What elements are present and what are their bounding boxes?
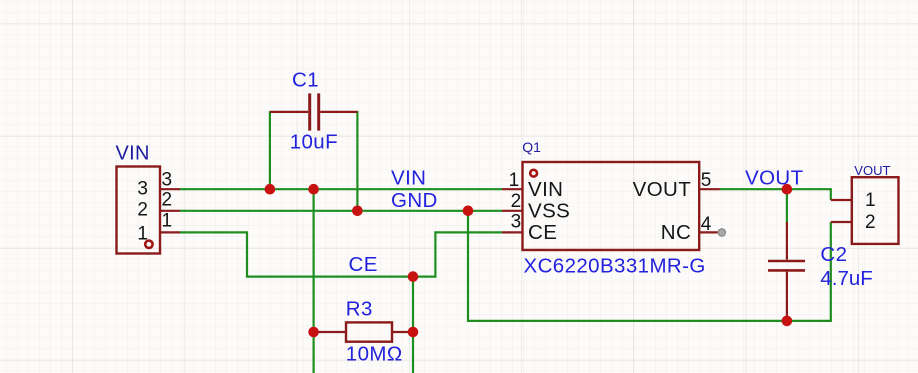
svg-text:CE: CE bbox=[528, 221, 557, 244]
svg-text:10uF: 10uF bbox=[290, 131, 338, 154]
junction dot R3 right bbox=[408, 327, 419, 338]
capacitor C2 bottom plate bbox=[768, 269, 805, 272]
svg-text:VIN: VIN bbox=[116, 142, 150, 164]
junction dot R3 left bbox=[308, 327, 319, 338]
IC Q1 pin 1 stub bbox=[502, 188, 523, 190]
junction dot bottom rail / C2 bottom bbox=[782, 316, 793, 327]
IC Q1 pin 4 stub bbox=[699, 231, 717, 233]
connector J1 pin 1 stub bbox=[160, 231, 180, 233]
svg-text:1: 1 bbox=[162, 211, 173, 232]
connector J1 pin 2 stub bbox=[160, 210, 180, 212]
connector J2 pin 2 stub bbox=[831, 221, 852, 223]
wire CE net: J1 pin1 to IC pin3 bbox=[180, 232, 502, 276]
wire C2 top bbox=[786, 189, 788, 223]
svg-text:3: 3 bbox=[162, 169, 173, 190]
capacitor C2 bottom lead bbox=[786, 272, 788, 321]
svg-text:VIN: VIN bbox=[528, 178, 563, 201]
capacitor C1 right plate bbox=[317, 93, 320, 130]
IC Q1 pin 3 stub bbox=[502, 231, 523, 233]
connector J1 pin1 indicator circle bbox=[145, 241, 152, 248]
svg-text:2: 2 bbox=[137, 199, 148, 220]
resistor R3 body bbox=[346, 322, 392, 341]
wire VOUT: IC pin5 to J2 pin1 bbox=[720, 189, 831, 200]
wire GND down, bottom rail, up to J2 pin2 bbox=[468, 211, 831, 321]
wire C1 left vertical bbox=[269, 111, 271, 189]
wire C1 right vertical bbox=[356, 111, 358, 211]
svg-text:1: 1 bbox=[865, 190, 876, 211]
junction dot VIN / R3 branch bbox=[308, 184, 319, 195]
junction dot GND / bottom rail branch bbox=[463, 206, 474, 217]
svg-text:Q1: Q1 bbox=[522, 139, 541, 155]
capacitor C1 right lead bbox=[320, 111, 357, 113]
svg-text:2: 2 bbox=[511, 191, 522, 212]
svg-text:C1: C1 bbox=[292, 69, 319, 92]
capacitor C2 top plate bbox=[768, 260, 805, 263]
svg-text:4.7uF: 4.7uF bbox=[820, 267, 872, 290]
svg-text:5: 5 bbox=[701, 170, 712, 191]
junction dot VOUT / C2 top bbox=[782, 184, 793, 195]
capacitor C1 left plate bbox=[308, 93, 311, 130]
junction dot CE / R3 branch bbox=[408, 271, 419, 282]
svg-text:3: 3 bbox=[511, 212, 522, 233]
connector J2 pin 1 stub bbox=[831, 199, 852, 201]
svg-text:NC: NC bbox=[661, 221, 691, 244]
svg-text:10MΩ: 10MΩ bbox=[346, 342, 403, 365]
IC Q1 pin4 NC unconnected circle bbox=[718, 229, 725, 236]
svg-text:4: 4 bbox=[701, 214, 712, 235]
svg-text:GND: GND bbox=[391, 189, 438, 212]
wire CE to R3 right vertical bbox=[412, 277, 414, 373]
svg-text:2: 2 bbox=[865, 212, 876, 233]
connector J1 pin 3 stub bbox=[160, 188, 180, 190]
svg-text:VSS: VSS bbox=[528, 199, 570, 222]
svg-text:1: 1 bbox=[137, 224, 148, 245]
connector J1 VIN body bbox=[117, 167, 161, 254]
svg-text:VIN: VIN bbox=[391, 166, 426, 189]
wire GND net horizontal bbox=[180, 210, 502, 212]
connector J2 VOUT body bbox=[852, 177, 899, 244]
capacitor C2 top lead bbox=[786, 222, 788, 260]
svg-text:C2: C2 bbox=[820, 243, 847, 266]
svg-text:2: 2 bbox=[162, 190, 173, 211]
svg-text:3: 3 bbox=[137, 179, 148, 200]
IC Q1 pin1 indicator circle bbox=[530, 170, 537, 177]
IC Q1 pin 5 stub bbox=[699, 188, 720, 190]
IC Q1 body (regulator XC6220B331MR-G) bbox=[523, 162, 700, 250]
junction dot VIN / C1 left bbox=[265, 184, 276, 195]
IC Q1 pin 2 stub bbox=[502, 210, 523, 212]
svg-text:R3: R3 bbox=[346, 298, 373, 321]
wire VIN to R3 left vertical bbox=[313, 189, 315, 373]
svg-text:VOUT: VOUT bbox=[745, 166, 804, 189]
svg-text:VOUT: VOUT bbox=[854, 163, 890, 178]
junction dot GND / C1 right bbox=[352, 206, 363, 217]
resistor R3 left lead bbox=[315, 331, 346, 333]
resistor R3 right lead bbox=[392, 331, 413, 333]
wire VIN net horizontal bbox=[180, 188, 502, 190]
svg-text:CE: CE bbox=[349, 253, 378, 276]
svg-text:1: 1 bbox=[509, 170, 520, 191]
svg-text:XC6220B331MR-G: XC6220B331MR-G bbox=[524, 255, 706, 278]
capacitor C1 left lead bbox=[270, 111, 308, 113]
svg-text:VOUT: VOUT bbox=[633, 178, 692, 201]
